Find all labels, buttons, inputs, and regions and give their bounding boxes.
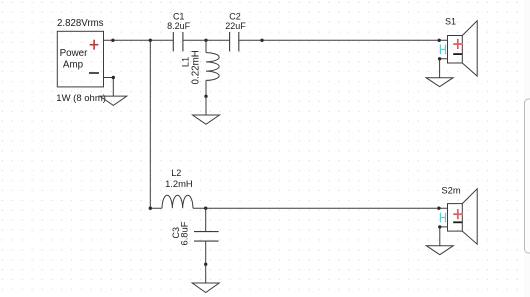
wire: amp - output to ground xyxy=(104,78,114,97)
ground below amp xyxy=(100,96,127,105)
power amp source box xyxy=(57,31,103,87)
wire: C1 to C2 xyxy=(183,39,230,41)
wire: C2 to speaker S1 xyxy=(239,39,448,41)
ground below S2m xyxy=(426,246,453,255)
inductor L1 (shunt) xyxy=(206,40,219,96)
svg-text:1.2mH: 1.2mH xyxy=(165,178,193,189)
speaker S2m xyxy=(448,189,478,244)
plus terminal mark xyxy=(90,40,99,50)
node dot S1 return xyxy=(438,57,441,60)
svg-text:1W (8 ohm): 1W (8 ohm) xyxy=(56,93,106,104)
svg-text:S2m: S2m xyxy=(441,184,460,195)
capacitor C1 xyxy=(173,32,183,51)
node dot amp minus pin xyxy=(112,76,115,79)
svg-text:L2: L2 xyxy=(171,168,181,178)
svg-text:L1: L1 xyxy=(181,57,191,67)
wire: L2 to speaker S2m xyxy=(193,207,448,209)
wire: branch down to L2 xyxy=(150,40,162,208)
S2m minus mark xyxy=(453,221,462,223)
wire: amp + output to C1 xyxy=(104,39,174,41)
capacitor C2 xyxy=(230,32,239,51)
scrollbar thumb at right edge xyxy=(524,0,530,297)
svg-text:Amp: Amp xyxy=(63,59,84,70)
node dot S2m input xyxy=(437,207,440,210)
ground below S1 xyxy=(426,78,453,87)
inductor L2 xyxy=(162,195,193,208)
node dot L1 bottom pin xyxy=(204,95,207,98)
wire: S2m return to ground xyxy=(440,227,448,246)
node dot C3 tap xyxy=(204,207,207,210)
node dot amp pin xyxy=(111,39,114,42)
svg-text:6.8uF: 6.8uF xyxy=(179,221,190,245)
S1 H mark xyxy=(440,45,445,55)
svg-text:2.828Vrms: 2.828Vrms xyxy=(57,18,104,29)
S1 minus mark xyxy=(453,53,462,55)
svg-text:22uF: 22uF xyxy=(225,21,246,31)
node dot S1 input xyxy=(438,39,441,42)
svg-text:S1: S1 xyxy=(445,17,456,27)
ground below L1 xyxy=(193,96,220,124)
minus terminal mark xyxy=(89,72,99,74)
node dot branch to L2 xyxy=(149,39,152,42)
node dot S2m return xyxy=(438,225,441,228)
node dot L2 left pin xyxy=(149,207,152,210)
S2m H mark xyxy=(440,213,445,223)
wire: S1 return to ground xyxy=(440,59,448,78)
node dot C2 pin end xyxy=(260,39,263,42)
speaker S1 xyxy=(448,21,478,76)
svg-text:0.22mH: 0.22mH xyxy=(190,50,201,84)
node dot C3 bottom pin xyxy=(204,263,207,266)
svg-text:Power: Power xyxy=(60,48,89,59)
S1 plus mark xyxy=(453,39,462,49)
ground below C3 xyxy=(192,264,219,292)
capacitor C3 (shunt) xyxy=(194,208,219,264)
svg-text:8.2uF: 8.2uF xyxy=(167,21,191,31)
S2m plus mark xyxy=(453,209,462,219)
node dot L1 tap xyxy=(204,39,207,42)
